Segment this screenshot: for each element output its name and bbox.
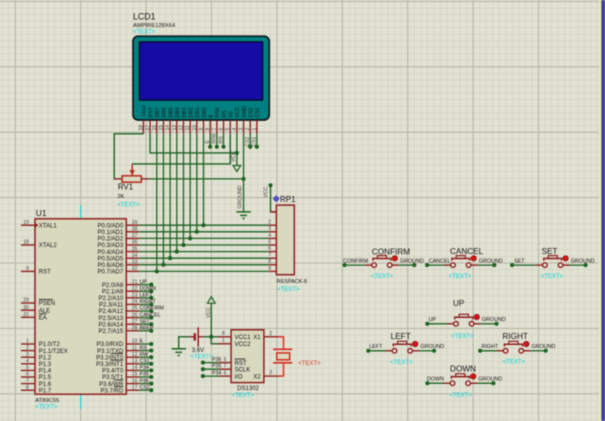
svg-text:13: 13 xyxy=(172,125,178,131)
svg-text:<TEXT>: <TEXT> xyxy=(449,274,472,280)
wire net SET to button xyxy=(512,264,536,266)
junction / net terminal CS2 xyxy=(248,145,252,149)
svg-text:4: 4 xyxy=(26,358,29,364)
svg-text:GROUND: GROUND xyxy=(482,317,506,323)
svg-text:P34: P34 xyxy=(140,365,149,371)
svg-text:7: 7 xyxy=(26,378,29,384)
svg-text:7: 7 xyxy=(224,364,227,370)
svg-text:DB3: DB3 xyxy=(182,107,188,117)
U1 pin 38 (P0.1/AD1) stub xyxy=(126,231,139,233)
junction / net terminal BEEP xyxy=(149,329,153,333)
wire DB0 (LCD pin9) down to P0.0 bus row xyxy=(202,134,204,225)
U1 pin 14 (P3.4/T0) stub xyxy=(126,369,139,371)
svg-text:P35: P35 xyxy=(140,372,149,378)
resistor pack RP1 pin 2 stub xyxy=(269,224,277,226)
net terminal GROUND (dot) at CONFIRM xyxy=(412,263,416,267)
U1 pin 24 (P2.3/A11) stub xyxy=(126,303,139,305)
U1 pin 33 (P0.6/AD6) stub xyxy=(126,264,139,266)
svg-text:DB5: DB5 xyxy=(168,107,174,117)
svg-text:<TEXT>: <TEXT> xyxy=(503,360,526,366)
wire battery+ to VCC1 xyxy=(203,336,218,338)
svg-text:VCC1: VCC1 xyxy=(235,335,252,341)
U1 pin 23 (P2.2/A10) stub xyxy=(126,297,139,299)
svg-text:X2: X2 xyxy=(253,374,261,380)
U1 pin 35 (P0.4/AD4) stub xyxy=(126,251,139,253)
svg-text:15: 15 xyxy=(132,372,138,378)
U1 pin 21 (P2.0/A8) stub xyxy=(126,284,139,286)
wire -Vout (pin18) to RV1 left terminal xyxy=(114,134,143,179)
wire button RIGHT to GROUND xyxy=(530,350,546,352)
U1 pin 29 (PSEN) stub xyxy=(21,302,35,304)
svg-text:UP: UP xyxy=(140,279,148,285)
svg-text:CS1: CS1 xyxy=(255,107,261,117)
junction / net terminal RS xyxy=(221,145,225,149)
svg-text:CS1: CS1 xyxy=(252,137,258,147)
svg-text:GROUND: GROUND xyxy=(571,258,595,264)
svg-text:P0.5/AD5: P0.5/AD5 xyxy=(98,256,124,262)
power terminal VCC for RP1 (net dot) xyxy=(268,183,272,187)
U1 pin 1 (P1.0/T2) stub xyxy=(21,343,35,345)
ground symbol below LCD xyxy=(236,212,250,219)
LCD display LCD1 body xyxy=(133,36,269,120)
junction DB4/P0.4 xyxy=(175,250,179,254)
svg-text:RP1: RP1 xyxy=(280,195,296,204)
svg-text:2: 2 xyxy=(269,331,272,337)
junction / net terminal CS1 xyxy=(255,145,259,149)
U1 pin 26 (P2.5/A13) stub xyxy=(126,317,139,319)
junction / net terminal UP xyxy=(149,283,153,287)
svg-text:UP: UP xyxy=(453,299,465,308)
junction / net terminal RS xyxy=(149,349,153,353)
button CONFIRM right pin stub xyxy=(392,264,399,266)
resistor pack RP1 pin 6 stub xyxy=(269,251,277,253)
DS1302 pin 3 stub (X2) xyxy=(264,375,279,377)
svg-text:LEFT: LEFT xyxy=(369,344,383,350)
svg-text:RST: RST xyxy=(148,106,154,117)
svg-text:P3.7/RD: P3.7/RD xyxy=(101,388,124,394)
svg-text:7: 7 xyxy=(212,128,218,131)
svg-text:39: 39 xyxy=(132,220,138,226)
svg-text:P35: P35 xyxy=(212,364,221,370)
svg-text:P36: P36 xyxy=(212,357,221,363)
resistor pack RP1 body xyxy=(276,205,294,275)
svg-text:9: 9 xyxy=(198,128,204,131)
svg-text:V0: V0 xyxy=(228,111,234,117)
svg-text:LEFT: LEFT xyxy=(140,293,154,299)
wire net LEFT to button xyxy=(368,350,385,352)
net terminal GROUND (dot) at RIGHT xyxy=(544,349,548,353)
svg-text:3: 3 xyxy=(269,370,272,376)
svg-text:CANCEL: CANCEL xyxy=(450,247,484,256)
net terminal P34 (dot) xyxy=(201,374,205,378)
svg-text:26: 26 xyxy=(132,312,138,318)
svg-text:P0.6/AD6: P0.6/AD6 xyxy=(98,263,124,269)
button LEFT actuator bar xyxy=(393,344,411,346)
svg-text:5: 5 xyxy=(268,239,271,245)
svg-text:14: 14 xyxy=(132,365,138,371)
svg-text:RIGHT: RIGHT xyxy=(481,344,498,350)
svg-text:10: 10 xyxy=(132,339,138,345)
svg-text:8: 8 xyxy=(26,385,29,391)
svg-text:36: 36 xyxy=(132,240,138,246)
button RIGHT right contact xyxy=(519,349,524,354)
svg-text:6: 6 xyxy=(26,372,29,378)
wire LCD GND (pin3) down to ground xyxy=(243,134,245,212)
wire button DOWN to GROUND xyxy=(477,382,493,384)
svg-text:8: 8 xyxy=(205,128,211,131)
svg-text:DOWN: DOWN xyxy=(140,286,157,292)
battery BT1 3.6V xyxy=(189,327,203,346)
svg-text:P2.0/A8: P2.0/A8 xyxy=(102,283,124,289)
svg-text:<TEXT>: <TEXT> xyxy=(371,274,394,280)
svg-text:CS2: CS2 xyxy=(245,137,251,147)
svg-text:GROUND: GROUND xyxy=(478,376,502,382)
U1 text-origin tick (top) xyxy=(80,206,82,219)
svg-text:P2.6/A14: P2.6/A14 xyxy=(99,322,124,328)
svg-text:P0.0/AD0: P0.0/AD0 xyxy=(98,223,124,229)
U1 pin 25 (P2.4/A12) stub xyxy=(126,310,139,312)
microcontroller U1 body xyxy=(35,219,126,394)
svg-text:VCC: VCC xyxy=(231,151,237,162)
wire DB5 (LCD pin14) down to P0.5 bus row xyxy=(169,134,171,258)
svg-text:VCC2: VCC2 xyxy=(235,342,252,348)
U1 pin 6 (P1.5) stub xyxy=(21,376,35,378)
button RIGHT right pin stub xyxy=(523,350,530,352)
svg-text:P0.4/AD4: P0.4/AD4 xyxy=(98,250,124,256)
wire DB4 (LCD pin13) down to P0.4 bus row xyxy=(176,134,178,252)
svg-text:RIGHT: RIGHT xyxy=(502,332,527,341)
svg-text:RIGHT: RIGHT xyxy=(140,299,157,305)
svg-text:3: 3 xyxy=(26,352,29,358)
wire battery- to ground xyxy=(179,337,190,349)
DS1302 pin 5 stub (P36) xyxy=(219,362,231,364)
svg-text:8: 8 xyxy=(222,331,225,337)
U1 pin 27 (P2.6/A14) stub xyxy=(126,323,139,325)
svg-text:24: 24 xyxy=(132,299,138,305)
svg-text:UP: UP xyxy=(429,317,437,323)
svg-text:4: 4 xyxy=(268,233,271,239)
svg-text:17: 17 xyxy=(132,385,138,391)
U1 pin 10 (P3.0/RXD) stub xyxy=(126,343,139,345)
svg-text:RS: RS xyxy=(222,110,228,118)
svg-text:RV1: RV1 xyxy=(118,183,134,192)
svg-text:P36: P36 xyxy=(140,378,149,384)
svg-text:RST: RST xyxy=(235,361,247,367)
net terminal CONFIRM (dot) xyxy=(342,263,346,267)
svg-text:P1.5: P1.5 xyxy=(39,375,52,381)
svg-text:-Vout: -Vout xyxy=(142,105,148,118)
svg-text:P1.6: P1.6 xyxy=(39,382,52,388)
svg-text:VCC: VCC xyxy=(235,106,241,117)
crystal X1 wiring (bottom) xyxy=(279,363,283,376)
button DOWN left contact xyxy=(450,381,455,386)
button LEFT right contact xyxy=(408,349,413,354)
wire bus AD2 from U1 to RP1 xyxy=(139,237,269,239)
svg-text:RS: RS xyxy=(140,345,148,351)
net terminal RIGHT (dot) xyxy=(478,349,482,353)
U1 pin 18 (XTAL2) stub xyxy=(21,244,35,246)
junction DB0/P0.0 xyxy=(201,223,205,227)
button UP actuator bar xyxy=(455,317,473,319)
junction DB7/P0.7 xyxy=(155,269,159,273)
power terminal VCC (up arrow) above DS1302 xyxy=(207,297,215,304)
wire net DOWN stub xyxy=(139,290,151,292)
LCD1 pin stubs xyxy=(143,120,256,134)
wire net LEFT stub xyxy=(139,297,151,299)
U1 pin 30 (ALE) stub xyxy=(21,309,35,311)
svg-text:P2.7/A15: P2.7/A15 xyxy=(99,329,124,335)
wire net RW stub xyxy=(139,356,151,358)
DS1302 pin 7 stub (P35) xyxy=(219,368,231,370)
svg-text:17: 17 xyxy=(145,125,151,131)
svg-text:AMPIRE128X64: AMPIRE128X64 xyxy=(133,23,176,29)
svg-text:E: E xyxy=(205,140,211,144)
svg-text:P1.3: P1.3 xyxy=(39,362,52,368)
svg-text:RESPACK-8: RESPACK-8 xyxy=(277,279,307,285)
junction / net terminal R/W xyxy=(215,145,219,149)
svg-text:SCLK: SCLK xyxy=(235,367,251,373)
svg-text:<TEXT>: <TEXT> xyxy=(277,287,300,293)
svg-text:P1.2: P1.2 xyxy=(39,355,52,361)
power terminal VCC (down arrow) at LCD pin4 xyxy=(233,166,241,172)
button SET actuator bar xyxy=(544,259,562,261)
svg-text:<TEXT>: <TEXT> xyxy=(232,393,255,399)
svg-text:GROUND: GROUND xyxy=(400,258,424,264)
wire DB1 (LCD pin10) down to P0.1 bus row xyxy=(196,134,198,232)
button SET right contact xyxy=(558,263,563,268)
svg-text:DB1: DB1 xyxy=(195,107,201,117)
svg-text:9: 9 xyxy=(26,266,29,272)
button RIGHT indicator (red dot) xyxy=(524,341,529,346)
U1 pin 2 (P1.1/T2EX) stub xyxy=(21,350,35,352)
svg-text:3: 3 xyxy=(268,226,271,232)
wire bus AD6 from U1 to RP1 xyxy=(139,264,269,266)
svg-text:CS2: CS2 xyxy=(140,385,150,391)
svg-text:16: 16 xyxy=(152,125,158,131)
svg-text:P3.3/INT1: P3.3/INT1 xyxy=(96,362,124,368)
svg-text:<TEXT>: <TEXT> xyxy=(117,203,140,209)
svg-text:1: 1 xyxy=(26,339,29,345)
button UP right contact xyxy=(469,322,474,327)
svg-text:P1.0/T2: P1.0/T2 xyxy=(39,342,61,348)
wire net CANCEL stub xyxy=(139,317,151,319)
svg-text:6: 6 xyxy=(224,371,227,377)
svg-text:P2.4/A12: P2.4/A12 xyxy=(99,309,124,315)
svg-text:31: 31 xyxy=(23,312,29,318)
U1 pin 7 (P1.6) stub xyxy=(21,383,35,385)
junction / net terminal RW xyxy=(149,355,153,359)
button CANCEL left contact xyxy=(451,263,456,268)
svg-text:XTAL1: XTAL1 xyxy=(39,223,58,229)
potentiometer RV1 wiper arrow xyxy=(131,164,133,170)
junction DB6/P0.6 xyxy=(161,263,165,267)
svg-text:2: 2 xyxy=(268,220,271,226)
svg-text:GROUND: GROUND xyxy=(238,185,244,208)
wire net CS1 stub from LCD pin1 xyxy=(256,134,258,147)
junction RST/VCC xyxy=(235,151,239,155)
svg-text:P3.0/RXD: P3.0/RXD xyxy=(97,342,124,348)
button UP indicator (red dot) xyxy=(474,314,479,319)
button DOWN indicator (red dot) xyxy=(471,374,476,379)
button DOWN right pin stub xyxy=(470,382,477,384)
svg-text:P0.3/AD3: P0.3/AD3 xyxy=(98,243,124,249)
svg-text:35: 35 xyxy=(132,246,138,252)
svg-text:5: 5 xyxy=(26,365,29,371)
net terminal P35 (dot) xyxy=(201,367,205,371)
U1 pin 28 (P2.7/A15) stub xyxy=(126,330,139,332)
U1 pin 9 (RST) stub xyxy=(21,270,35,272)
button SET left contact xyxy=(543,263,548,268)
wire button SET to GROUND xyxy=(570,264,586,266)
U1 pin 3 (P1.2) stub xyxy=(21,356,35,358)
wire net CONFIRM stub xyxy=(139,310,151,312)
wire net P35 to DS1302 xyxy=(203,368,219,370)
svg-text:32: 32 xyxy=(132,266,138,272)
svg-text:18: 18 xyxy=(138,125,144,131)
svg-text:GROUND: GROUND xyxy=(531,344,555,350)
resistor pack RP1 pin 7 stub xyxy=(269,257,277,259)
svg-text:27: 27 xyxy=(132,319,138,325)
svg-text:E: E xyxy=(140,339,144,345)
svg-text:1: 1 xyxy=(252,128,258,131)
button RIGHT left contact xyxy=(503,349,508,354)
resistor pack RP1 pin 9 stub xyxy=(269,270,277,272)
svg-text:LCD1: LCD1 xyxy=(133,12,156,22)
svg-text:29: 29 xyxy=(23,298,29,304)
wire net RS stub from LCD pin6 xyxy=(223,134,225,147)
junction / net terminal SET xyxy=(149,322,153,326)
LCD1 screen area xyxy=(140,42,263,100)
svg-text:P2.5/A13: P2.5/A13 xyxy=(99,316,124,322)
button CANCEL left pin stub xyxy=(444,264,451,266)
U1 pin 15 (P3.5/T1) stub xyxy=(126,376,139,378)
wire net RIGHT to button xyxy=(480,350,497,352)
wire net P35 stub xyxy=(139,376,151,378)
wire button CONFIRM to GROUND xyxy=(399,264,415,266)
svg-text:4: 4 xyxy=(232,128,238,131)
junction / net terminal RIGHT xyxy=(149,302,153,306)
wire LCD VCC (pin4) to power terminal xyxy=(236,134,238,166)
net terminal GROUND (dot) at DOWN xyxy=(491,381,495,385)
wire DB3 (LCD pin12) down to P0.3 bus row xyxy=(182,134,184,245)
net terminal GROUND (dot) at LEFT xyxy=(432,349,436,353)
wire net P36 to DS1302 xyxy=(203,362,219,364)
svg-text:2: 2 xyxy=(26,345,29,351)
button CONFIRM left pin stub xyxy=(365,264,372,266)
wire bus AD3 from U1 to RP1 xyxy=(139,244,269,246)
svg-text:2: 2 xyxy=(245,128,251,131)
svg-text:CONFIRM: CONFIRM xyxy=(140,306,164,312)
net terminal GROUND (dot) at UP xyxy=(494,322,498,326)
button LEFT left pin stub xyxy=(386,350,393,352)
svg-text:P0.1/AD1: P0.1/AD1 xyxy=(98,230,124,236)
junction DB2/P0.2 xyxy=(188,236,192,240)
button CONFIRM right contact xyxy=(387,263,392,268)
wire net UP stub xyxy=(139,284,151,286)
button SET left pin stub xyxy=(536,264,543,266)
U1 pin 22 (P2.1/A9) stub xyxy=(126,290,139,292)
button DOWN right contact xyxy=(466,381,471,386)
svg-text:DB7: DB7 xyxy=(155,107,161,117)
crystal X1 body xyxy=(277,353,290,360)
svg-text:11: 11 xyxy=(185,125,191,130)
junction VCC/battery wire xyxy=(209,335,213,339)
svg-text:11: 11 xyxy=(132,345,137,351)
wire net CS1 stub xyxy=(139,363,151,365)
svg-text:<TEXT>: <TEXT> xyxy=(298,361,321,367)
wire button CANCEL to GROUND xyxy=(478,264,495,266)
svg-text:BEEP: BEEP xyxy=(140,326,154,332)
RP1 pin 1 stub xyxy=(271,211,277,213)
svg-text:P2.1/A9: P2.1/A9 xyxy=(102,289,124,295)
svg-text:6: 6 xyxy=(268,246,271,252)
junction / net terminal CS2 xyxy=(149,388,153,392)
svg-text:22: 22 xyxy=(132,286,138,292)
svg-text:<TEXT>: <TEXT> xyxy=(133,30,156,36)
DS1302 pin 1 stub (VCC2) xyxy=(218,343,231,345)
crystal X1 top plate xyxy=(273,348,292,350)
svg-text:9: 9 xyxy=(268,266,271,272)
net terminal GROUND (dot) at SET xyxy=(584,263,588,267)
svg-text:<TEXT>: <TEXT> xyxy=(390,360,413,366)
junction / net terminal CONFIRM xyxy=(149,309,153,313)
svg-text:12: 12 xyxy=(178,125,184,131)
wire net P36 stub xyxy=(139,383,151,385)
U1 pin 13 (P3.3/INT1) stub xyxy=(126,363,139,365)
RP1 origin marker (blue diamond) xyxy=(273,195,280,202)
resistor pack RP1 pin 8 stub xyxy=(269,264,277,266)
button CONFIRM actuator bar xyxy=(373,259,391,261)
net terminal P36 (dot) xyxy=(201,361,205,365)
wire LCD RST (pin17) to VCC net xyxy=(150,134,237,153)
wire net P34 to DS1302 xyxy=(203,375,219,377)
svg-text:P2.2/A10: P2.2/A10 xyxy=(99,296,124,302)
ground symbol at battery xyxy=(172,349,187,356)
svg-text:3: 3 xyxy=(239,128,245,131)
svg-text:DS1302: DS1302 xyxy=(237,386,259,392)
resistor pack RP1 pin 3 stub xyxy=(269,231,277,233)
wire net E stub from LCD pin8 xyxy=(209,134,211,147)
svg-text:RST: RST xyxy=(39,270,51,276)
button UP left contact xyxy=(454,322,459,327)
svg-text:7: 7 xyxy=(268,253,271,259)
button CANCEL right contact xyxy=(466,263,471,268)
svg-text:DB0: DB0 xyxy=(202,107,208,117)
junction / net terminal P36 xyxy=(149,382,153,386)
U1 pin 39 (P0.0/AD0) stub xyxy=(126,224,139,226)
U1 pin 36 (P0.3/AD3) stub xyxy=(126,244,139,246)
U1 pin 31 (EA) stub xyxy=(21,316,35,318)
svg-text:<TEXT>: <TEXT> xyxy=(449,393,472,399)
svg-text:SET: SET xyxy=(140,319,151,325)
svg-text:18: 18 xyxy=(23,240,29,246)
junction DB5/P0.5 xyxy=(168,256,172,260)
button CANCEL actuator bar xyxy=(452,259,470,261)
junction / net terminal LEFT xyxy=(149,296,153,300)
button SET indicator (red dot) xyxy=(563,256,568,261)
wire net P34 stub xyxy=(139,369,151,371)
svg-text:28: 28 xyxy=(132,326,138,332)
U1 pin 4 (P1.3) stub xyxy=(21,363,35,365)
svg-text:23: 23 xyxy=(132,293,138,299)
U1 pin 5 (P1.4) stub xyxy=(21,369,35,371)
svg-text:R/W: R/W xyxy=(215,107,221,117)
wire DB6 (LCD pin15) down to P0.6 bus row xyxy=(162,134,164,265)
wire V0 (LCD pin5) to RV1 wiper xyxy=(132,134,230,164)
svg-text:CONFIRM: CONFIRM xyxy=(343,259,369,265)
svg-text:13: 13 xyxy=(132,359,138,365)
svg-text:34: 34 xyxy=(132,253,138,259)
